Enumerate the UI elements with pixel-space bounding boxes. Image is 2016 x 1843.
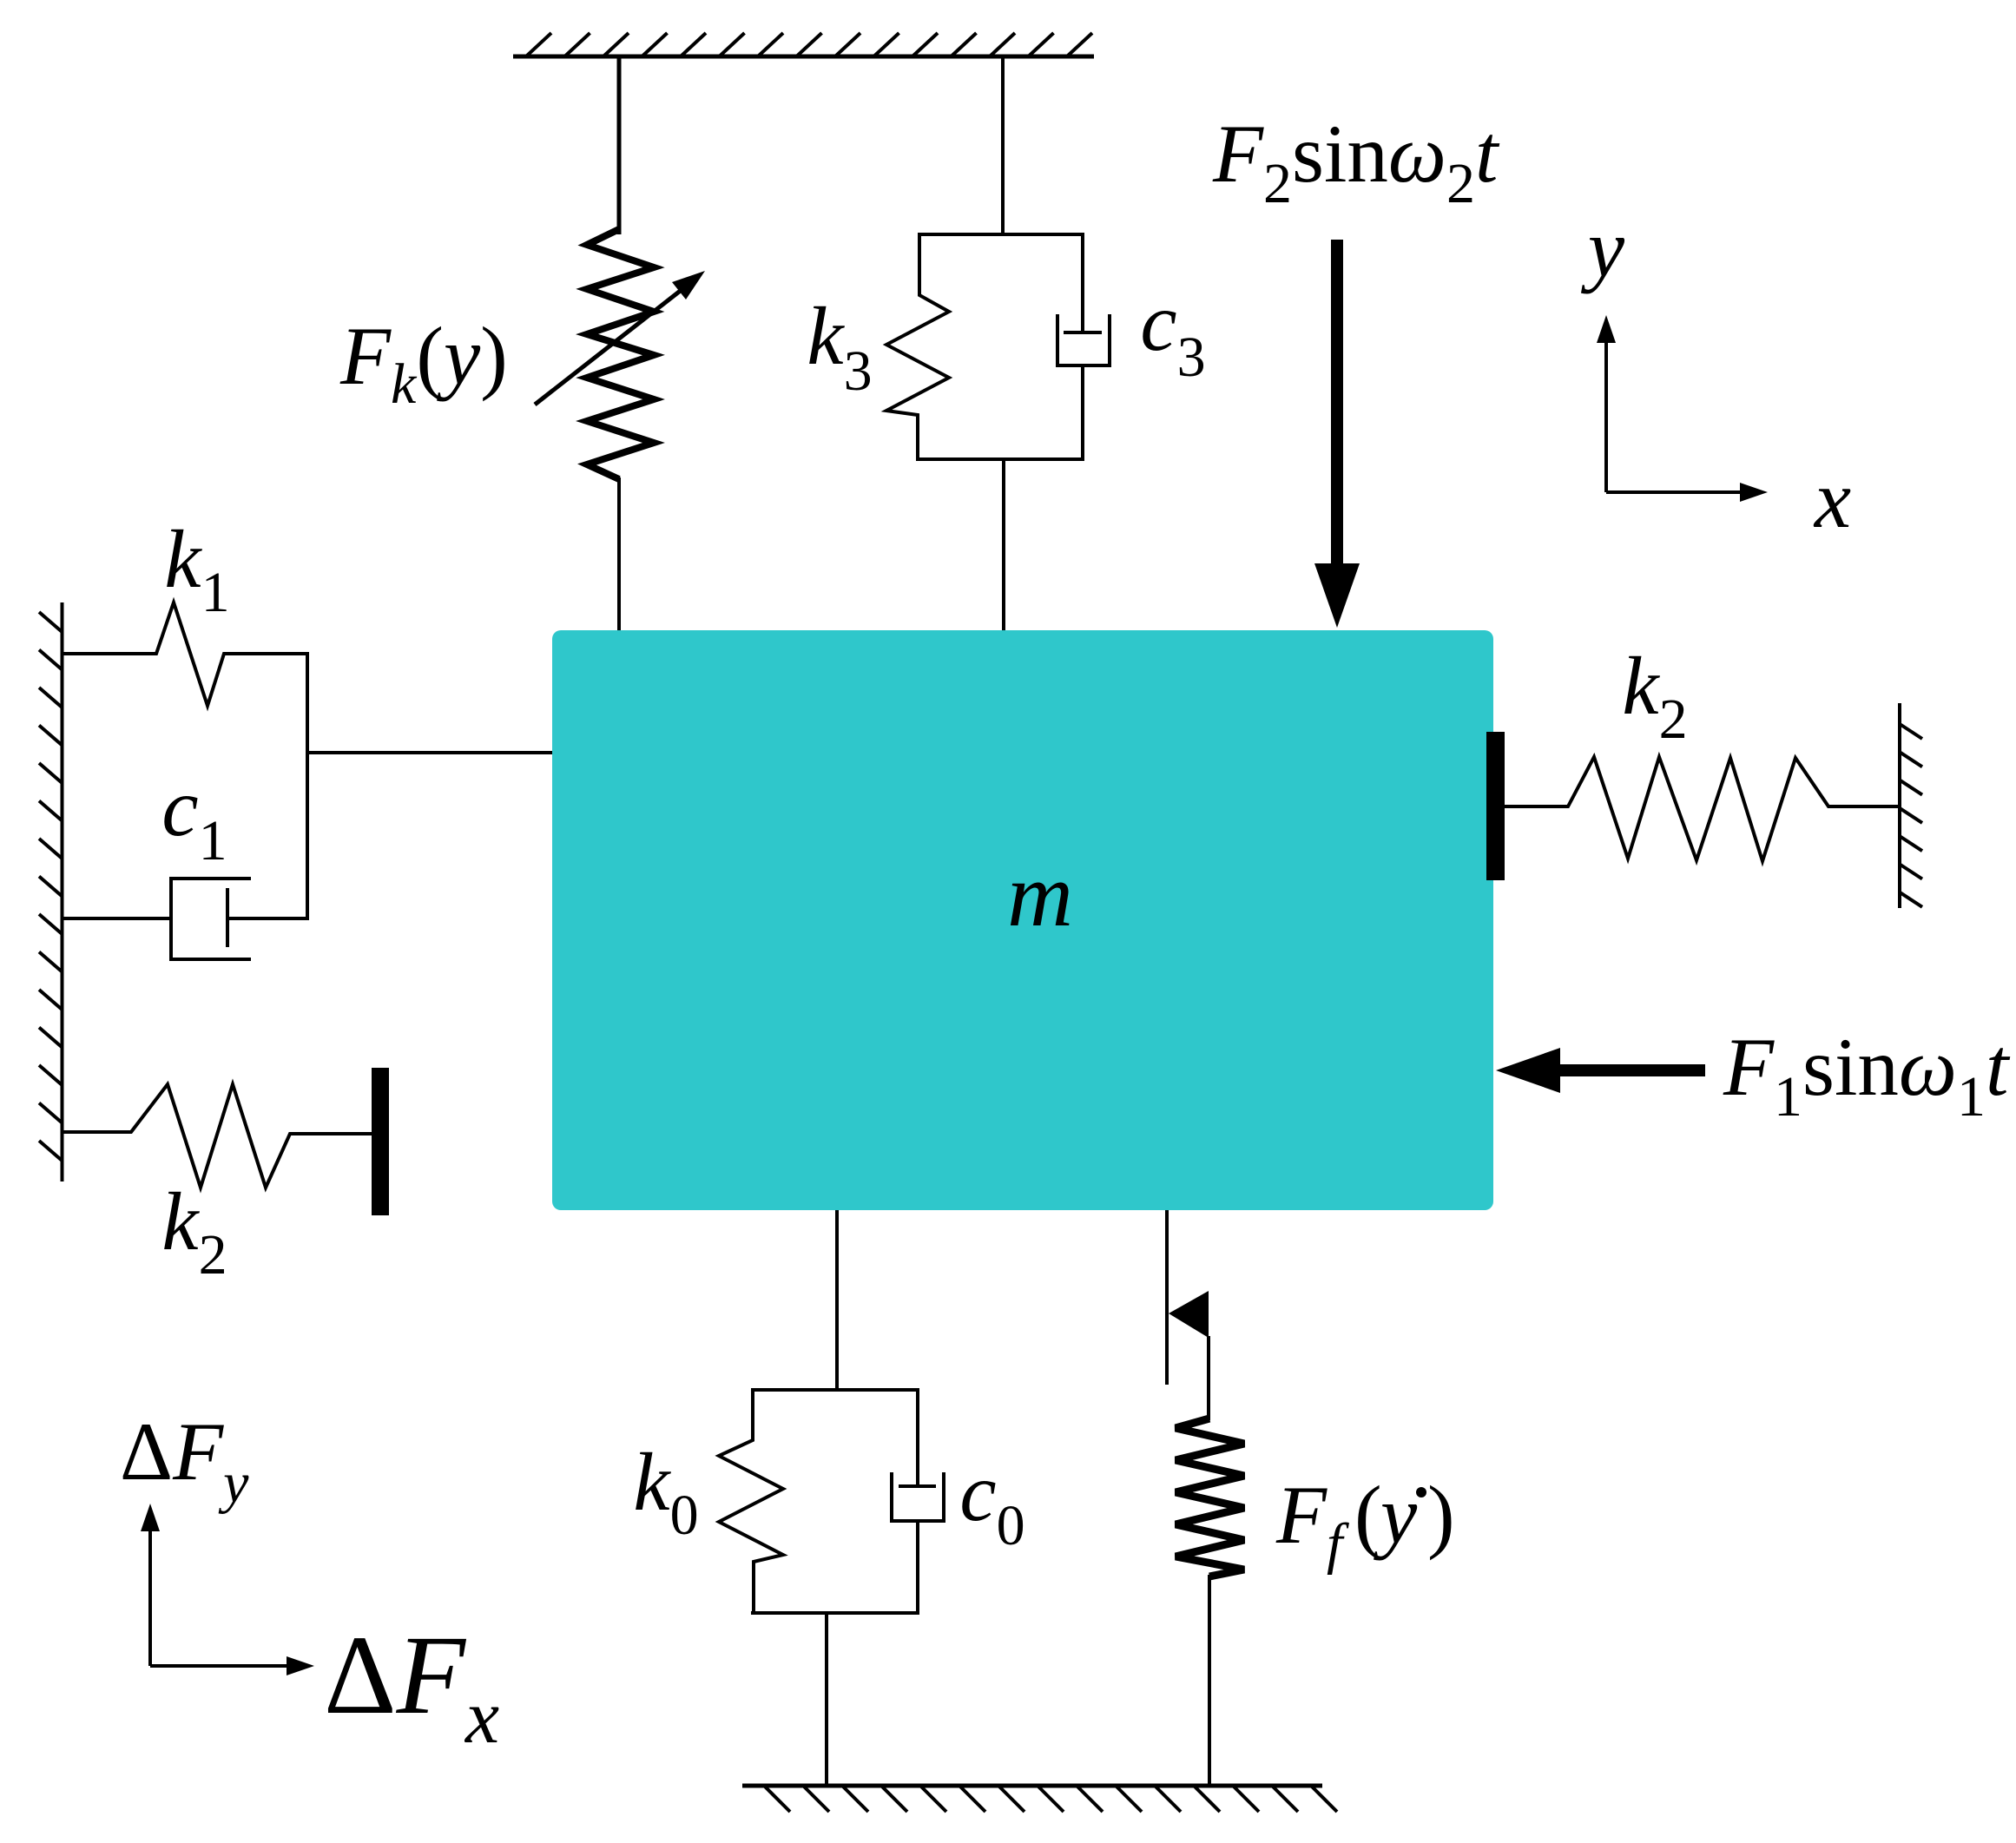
ground (hatched, bottom) [742, 1786, 1337, 1812]
wire ceiling to variable spring Fk [617, 55, 622, 234]
svg-text:F: F [1275, 1469, 1328, 1561]
wire spring Fk to mass [617, 477, 621, 632]
svg-text:k2: k2 [1622, 640, 1687, 751]
svg-text:F2sinω2t: F2sinω2t [1212, 108, 1500, 215]
svg-text:k0: k0 [633, 1436, 698, 1547]
spring k2 right [1505, 757, 1900, 861]
wire mass to friction element [1165, 1210, 1169, 1385]
label Ff(y-dot) [1275, 1469, 1455, 1576]
wire k3/c3 box to mass [1002, 457, 1005, 632]
coordinate axes x-y [1597, 315, 1768, 502]
svg-text:y: y [1374, 1469, 1418, 1561]
svg-text:ΔFx: ΔFx [324, 1613, 499, 1760]
spring k1 [63, 602, 307, 706]
svg-text:k2: k2 [161, 1175, 227, 1287]
wire k0/c0 box to ground [825, 1611, 828, 1786]
stop plate right [1486, 732, 1505, 880]
friction flag [1169, 1291, 1209, 1338]
svg-text:f: f [1327, 1512, 1349, 1576]
k3/c3 parallel box bottom bar [917, 457, 1083, 461]
spring k3 [886, 233, 949, 461]
spring k0 [719, 1388, 783, 1615]
svg-text:c1: c1 [161, 761, 227, 872]
wire ceiling to k3/c3 box [1001, 55, 1005, 236]
svg-text:x: x [1813, 453, 1851, 545]
svg-text:m: m [1007, 844, 1073, 945]
junction bar k1/c1 [306, 652, 309, 920]
stop plate left [372, 1068, 389, 1215]
damper c0 [892, 1388, 944, 1615]
variable-spring arrow [535, 271, 705, 405]
ceiling (hatched support, top) [513, 33, 1094, 56]
k0/c0 box bottom bar [751, 1611, 918, 1615]
damper c3 [1057, 233, 1110, 461]
svg-text:(: ( [1354, 1469, 1382, 1561]
right wall (hatched) [1900, 703, 1922, 908]
svg-text:c0: c0 [959, 1446, 1024, 1557]
k0/c0 box top bar [751, 1388, 918, 1392]
svg-text:Fk(y): Fk(y) [339, 310, 508, 416]
force arrow F2 [1314, 240, 1360, 628]
svg-text:k3: k3 [807, 290, 872, 403]
delta-F axes [141, 1504, 314, 1675]
svg-text:): ) [1427, 1469, 1455, 1561]
k3/c3 parallel box top bar [919, 233, 1083, 236]
svg-text:y: y [1581, 202, 1625, 294]
spring k2 left (with gap stop) [63, 1084, 372, 1188]
svg-text:c3: c3 [1140, 276, 1205, 389]
wire k1/c1 junction to mass [306, 751, 554, 754]
wire friction element to ground [1208, 1575, 1211, 1786]
left wall (hatched) [39, 602, 63, 1181]
wire mass to k0/c0 box [835, 1210, 839, 1392]
damper c1 [63, 879, 307, 959]
friction spring Ff [1176, 1418, 1244, 1576]
friction flag stem [1207, 1336, 1210, 1420]
svg-text:ΔFy: ΔFy [120, 1405, 249, 1515]
variable spring Fk(y) [587, 229, 654, 479]
mass m [552, 630, 1493, 1210]
svg-text:F1sinω1t: F1sinω1t [1723, 1021, 2011, 1129]
force arrow F1 [1496, 1048, 1705, 1093]
